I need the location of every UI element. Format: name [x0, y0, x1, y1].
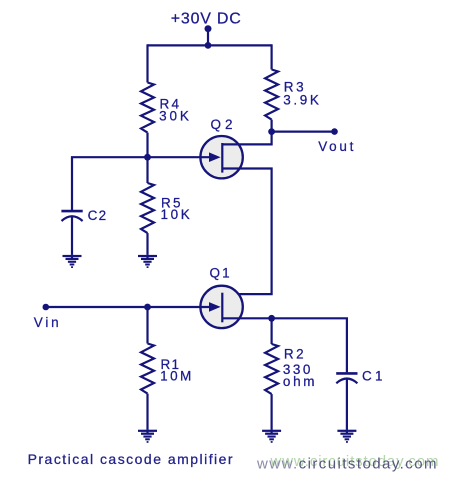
junction Vout node	[268, 128, 275, 135]
svg-text:Q1: Q1	[210, 265, 230, 280]
wire R1 top	[146, 307, 148, 344]
capacitor C1	[336, 373, 357, 429]
wire Vout	[272, 131, 335, 133]
wire Q2 emitter to Q1 collector	[222, 169, 271, 295]
wire Q2 base	[148, 156, 211, 158]
resistor R1	[141, 344, 154, 394]
ground below R5	[138, 255, 157, 268]
junction Q1 emitter node	[268, 315, 275, 322]
wire Q2 collector lead	[222, 132, 271, 145]
svg-text:C2: C2	[88, 208, 107, 223]
wire R2 to ground	[271, 394, 273, 430]
resistor R3	[265, 70, 278, 120]
wire R5 to ground	[146, 233, 148, 255]
terminal Vout dot	[331, 128, 338, 135]
label R4 30K	[159, 97, 189, 124]
label R1 10M	[160, 357, 191, 383]
wire R1 to ground	[146, 394, 148, 430]
label R5 10K	[161, 195, 190, 222]
svg-text:R2: R2	[284, 346, 304, 361]
capacitor C2	[61, 211, 82, 255]
resistor R2	[265, 344, 278, 394]
wire R2 top	[271, 318, 273, 344]
svg-text:10K: 10K	[161, 207, 190, 222]
resistor R5	[141, 183, 154, 233]
ground below C2	[63, 255, 82, 268]
+30V terminal dot	[205, 25, 212, 32]
terminal Vin dot	[43, 304, 50, 311]
junction node base Q2	[144, 154, 151, 161]
resistor R4	[141, 83, 154, 133]
wire right rail upper	[271, 44, 273, 69]
svg-text:10M: 10M	[160, 369, 191, 384]
svg-text:www.circuitstoday.com: www.circuitstoday.com	[256, 455, 437, 472]
wire R3 to Vout node	[271, 120, 273, 132]
ground below R1	[138, 430, 157, 443]
transistor Q2	[200, 136, 242, 178]
wire left rail upper	[146, 44, 148, 82]
svg-text:Vout: Vout	[318, 139, 353, 154]
svg-text:Vin: Vin	[34, 315, 59, 330]
svg-text:ohm: ohm	[283, 374, 315, 389]
junction supply-bus	[205, 42, 212, 49]
svg-text:3.9K: 3.9K	[283, 92, 319, 107]
label R3 3.9K	[283, 80, 319, 108]
svg-text:+30V DC: +30V DC	[171, 10, 241, 27]
wire Q1 emitter lead	[222, 317, 271, 319]
wire emitter node to C1	[272, 318, 347, 372]
wire R5 top	[146, 157, 148, 183]
wire R4 to base node	[146, 133, 148, 158]
svg-text:Q2: Q2	[211, 117, 233, 132]
ground below C1	[337, 430, 356, 443]
label R2 330 ohm	[283, 346, 315, 389]
wire top bus horizontal	[148, 44, 272, 46]
transistor Q1	[200, 286, 242, 328]
wire Vin to Q1 base	[46, 306, 210, 308]
junction node R1 top	[144, 304, 151, 311]
svg-text:30K: 30K	[159, 108, 189, 123]
wire base node left to C2 branch	[72, 157, 148, 210]
ground below R2	[262, 430, 281, 443]
svg-text:C1: C1	[362, 369, 383, 384]
wire supply lead vertical	[207, 29, 209, 46]
svg-text:Practical cascode amplifier: Practical cascode amplifier	[28, 451, 233, 467]
